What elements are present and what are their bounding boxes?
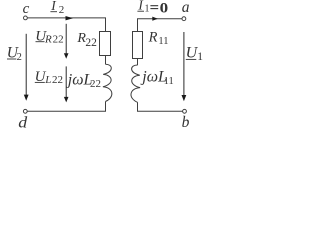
svg-text:a: a bbox=[182, 0, 190, 16]
svg-text:0: 0 bbox=[160, 0, 169, 16]
svg-text:11: 11 bbox=[158, 36, 168, 47]
svg-text:b: b bbox=[182, 114, 190, 131]
svg-text:22: 22 bbox=[53, 34, 64, 46]
svg-text:d: d bbox=[18, 114, 27, 132]
svg-text:11: 11 bbox=[164, 76, 174, 87]
svg-text:1: 1 bbox=[145, 3, 150, 14]
svg-text:2: 2 bbox=[59, 4, 64, 16]
svg-text:22: 22 bbox=[90, 78, 101, 90]
svg-text:c: c bbox=[23, 1, 30, 17]
svg-text:L: L bbox=[44, 74, 51, 86]
svg-text:2: 2 bbox=[17, 52, 22, 63]
svg-text:R: R bbox=[148, 29, 158, 45]
svg-text:22: 22 bbox=[52, 74, 63, 86]
svg-text:22: 22 bbox=[85, 37, 97, 49]
svg-text:R: R bbox=[44, 34, 52, 46]
svg-text:1: 1 bbox=[197, 51, 203, 63]
svg-text:jωL: jωL bbox=[66, 71, 93, 88]
svg-text:I: I bbox=[50, 0, 57, 13]
